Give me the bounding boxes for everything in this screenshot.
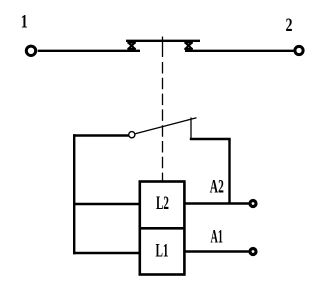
terminal A2 [250, 201, 256, 207]
svg-text:A2: A2 [210, 176, 224, 197]
contact right [184, 43, 193, 50]
wire L1 left stub [73, 252, 140, 254]
actuator stub [162, 37, 164, 58]
terminal A1 [250, 249, 256, 255]
actuator dashed link [162, 62, 164, 182]
wire lever to A2 drop [190, 138, 231, 140]
contact bridge bar [126, 40, 200, 42]
svg-text:A1: A1 [210, 226, 223, 247]
coil box L2/L1 [140, 182, 185, 275]
wire contact to terminal2 [185, 50, 294, 52]
svg-text:L2: L2 [156, 194, 169, 214]
contact left [127, 43, 136, 50]
wire L2 left stub [73, 203, 140, 205]
svg-text:L1: L1 [156, 241, 169, 261]
lever post [190, 118, 192, 139]
switch lever [135, 118, 196, 134]
wire A2 stub [185, 202, 250, 204]
wire A2 drop vertical [228, 139, 230, 204]
lever pivot [129, 132, 135, 138]
wire A1 stub [185, 250, 250, 252]
svg-text:1: 1 [21, 12, 28, 33]
coil divider [140, 227, 185, 230]
svg-text:2: 2 [286, 15, 293, 36]
wire left vertical bus [73, 134, 75, 254]
wire pivot feed horizontal [73, 134, 129, 136]
terminal 1 [26, 46, 35, 55]
wire terminal1 to contact [38, 50, 140, 52]
terminal 2 [295, 46, 303, 54]
